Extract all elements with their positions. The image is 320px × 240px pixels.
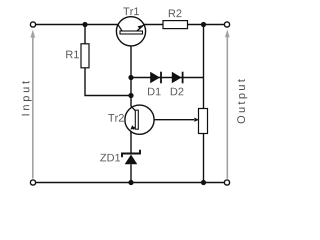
wire right branch upper	[203, 25, 205, 109]
junction node ZD1 bottom	[128, 180, 133, 185]
input indicator arrow	[30, 30, 35, 179]
wire right branch lower	[203, 134, 205, 183]
label Output	[237, 79, 247, 123]
label R1	[66, 51, 79, 59]
junction node output tap	[201, 22, 206, 27]
wire R1 bottom lead	[85, 68, 131, 96]
wire Tr1 emitter to R2	[144, 24, 163, 26]
diode D2	[172, 72, 183, 84]
wire base column Tr1 base to Tr2 collector	[130, 34, 132, 106]
wire Tr2 emitter to ZD1	[130, 131, 132, 152]
wire Tr2 base to potentiometer wiper	[138, 119, 194, 121]
junction node R1 top	[82, 22, 87, 27]
wire R2 to output terminal	[188, 24, 225, 26]
wire ZD1 to bottom rail	[130, 164, 132, 182]
junction node diode row left	[128, 75, 133, 80]
label Tr1	[123, 8, 139, 16]
resistor R1	[81, 44, 89, 68]
resistor R2	[163, 21, 188, 29]
wire diode row	[131, 77, 204, 79]
wire top rail	[36, 24, 119, 26]
label R2	[169, 9, 182, 17]
label D2	[171, 88, 184, 96]
transistor Tr1	[116, 17, 145, 46]
wire bottom rail	[36, 182, 225, 184]
wire R1 top lead	[84, 25, 86, 44]
potentiometer P1	[194, 109, 207, 134]
transistor Tr2	[125, 105, 154, 134]
label ZD1	[100, 154, 120, 162]
junction node pot bottom	[201, 180, 206, 185]
label Input	[22, 81, 32, 115]
output indicator arrow	[225, 30, 230, 179]
output terminal bottom	[224, 180, 229, 185]
label D1	[148, 88, 161, 96]
input terminal top	[30, 22, 35, 27]
diode D1	[150, 72, 161, 84]
input terminal bottom	[30, 180, 35, 185]
junction node R1 bottom tap	[128, 93, 133, 98]
output terminal top	[224, 22, 229, 27]
zener diode ZD1	[122, 150, 140, 165]
label Tr2	[108, 114, 124, 122]
